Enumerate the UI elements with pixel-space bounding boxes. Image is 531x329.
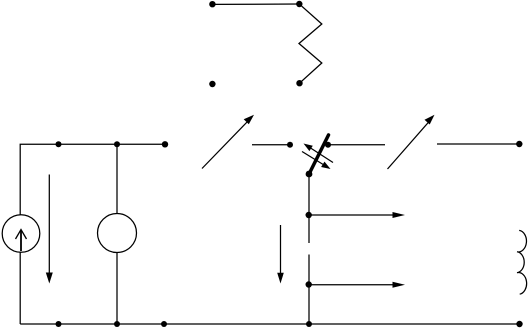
current source I1 — [2, 215, 40, 253]
arrow (branch current, right) — [309, 284, 394, 286]
wire — [328, 144, 385, 146]
switch S3 arm (arrow up-right) — [388, 121, 431, 170]
wire — [252, 144, 290, 146]
wire — [437, 143, 519, 145]
switch S2 motion arrow (up-left) — [307, 145, 334, 162]
node G — [287, 142, 293, 148]
junction dot — [56, 321, 62, 327]
wire (top horizontal) — [212, 3, 299, 5]
switch S2 blade (thick) — [309, 135, 328, 174]
node E (top wire right end) — [162, 141, 168, 147]
node J — [516, 141, 522, 147]
arrow (voltage direction, down) — [280, 225, 282, 274]
wire (below I1) — [19, 252, 21, 324]
source U1 (circle) — [98, 214, 137, 253]
node B — [296, 1, 302, 7]
junction dot — [56, 141, 62, 147]
node D (lone dot) — [209, 81, 215, 87]
wire (middle branch lower) — [308, 255, 310, 325]
switch S2 motion arrow (down-right) — [302, 152, 324, 166]
switch S1 arm (arrow up-right) — [202, 120, 249, 169]
node C (resistor bottom) — [296, 80, 302, 86]
node K — [306, 212, 312, 218]
wire (bottom rail) — [20, 323, 519, 325]
wire (left loop top) — [20, 144, 165, 215]
junction dot — [114, 141, 120, 147]
junction dot — [161, 321, 167, 327]
junction dot — [114, 321, 120, 327]
inductor L1 — [517, 230, 527, 294]
current source I1 arrow — [20, 230, 22, 251]
node I — [325, 142, 331, 148]
node F (bottom rail right end) — [516, 321, 522, 327]
node H (blade pivot) — [306, 171, 313, 178]
junction dot — [306, 321, 312, 327]
node A (top-left) — [209, 1, 215, 7]
wire (below source U1) — [116, 253, 118, 325]
resistor R1 (zigzag) — [299, 4, 322, 83]
node L — [306, 281, 312, 287]
wire (above source U1) — [116, 144, 118, 213]
wire (middle branch upper) — [308, 174, 310, 243]
arrow (current direction, down) — [48, 175, 50, 275]
arrow (branch current, right) — [309, 214, 394, 216]
